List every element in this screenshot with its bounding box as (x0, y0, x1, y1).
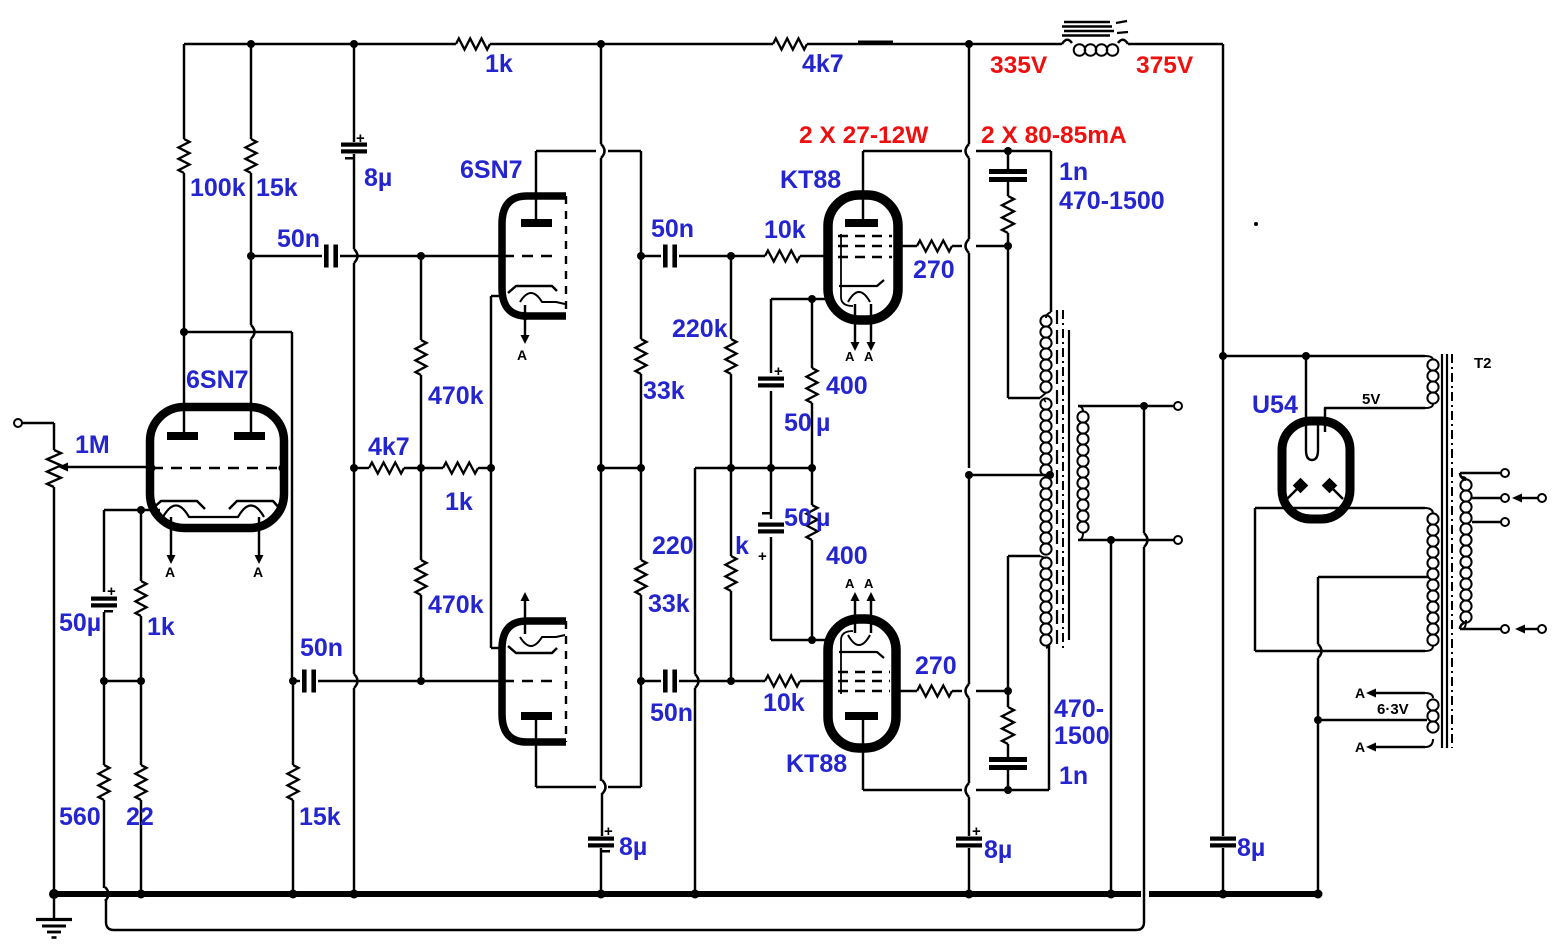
wire mains tap2 (1472, 497, 1501, 499)
wire top B+ rail left section (184, 43, 456, 45)
resistor 270 lower (917, 686, 952, 697)
wire 50u upper branch (770, 299, 772, 373)
svg-text:50: 50 (784, 409, 812, 437)
svg-text:50µ: 50µ (59, 609, 101, 637)
wire V3 top cap to y151 (863, 150, 962, 152)
ground bus (52, 891, 1141, 897)
capacitor 50n (splitter to KT88 upper) (663, 245, 668, 268)
wire 33k upper to rail link (640, 374, 642, 468)
wire HT left return (1254, 508, 1256, 651)
svg-text:10k: 10k (764, 216, 806, 244)
wire 15k plate lead (250, 44, 252, 139)
node junction V1a plate to V1b grid link (180, 328, 188, 336)
wire splitter upper cathode to bias (490, 296, 492, 468)
svg-text:270: 270 (915, 652, 957, 680)
svg-text:400: 400 (826, 542, 868, 570)
node junction 220k mid y468 (727, 464, 735, 472)
resistor 1k (bias) (443, 463, 478, 474)
node junction 470k mid (417, 464, 425, 472)
terminal mains tap2 right (1538, 494, 1546, 502)
V4 grid dashes row3 (838, 690, 890, 692)
wire V2a plate to 33k top (536, 150, 596, 152)
svg-text:470k: 470k (428, 382, 484, 410)
node junction 1k bias x141 y510 (137, 506, 145, 514)
wire OPT secondary top lead (1078, 405, 1174, 407)
terminal OPT secondary top (1174, 402, 1182, 410)
node junction 50u upper bottom (767, 464, 775, 472)
node junction 400 upper bottom (808, 464, 816, 472)
V4 heater (848, 635, 870, 645)
svg-text:A: A (1355, 685, 1365, 701)
wire hop x969 over y151 (968, 44, 970, 144)
svg-text:6SN7: 6SN7 (460, 156, 523, 184)
capacitor 8u (top filter) (341, 143, 367, 147)
node bus x1318 (1314, 890, 1323, 899)
svg-text:5V: 5V (1362, 391, 1380, 408)
wire to splitter upper grid (421, 255, 501, 257)
wire top rail choke to 375V corner (1128, 43, 1223, 45)
wire bias rail right (478, 467, 491, 469)
V2b cathode (508, 646, 557, 653)
capacitor 8u (335V filter) (956, 837, 982, 841)
OPT primary winding section 3 (1040, 477, 1051, 488)
node bus x293 (289, 890, 298, 899)
wire V4 cathode tap y640 (771, 639, 828, 641)
wire 15k-b to bus (292, 800, 294, 894)
wire y151 to snubber node (976, 150, 1008, 152)
wire mains bottom lead (1460, 622, 1466, 629)
scan artifact dash on top rail (858, 41, 893, 44)
svg-text:U54: U54 (1252, 391, 1298, 419)
stray scan dot (1254, 222, 1258, 226)
svg-text:+: + (972, 823, 981, 840)
node V2b heater lead envelope crossing (522, 618, 529, 625)
svg-text:1k: 1k (485, 50, 513, 78)
wire splitter lower cathode from bias (490, 468, 492, 648)
wire 470k upper leads (420, 256, 422, 340)
svg-text:15k: 15k (256, 174, 298, 202)
wire OPT primary bottom lead (1048, 644, 1050, 790)
terminal mains tap2 left (1501, 494, 1509, 502)
wire 10k to KT88 lower grid (800, 680, 829, 682)
node junction top rail x601 (597, 40, 605, 48)
wire 8u decoupling drop x354 (353, 44, 355, 142)
svg-text:+: + (758, 548, 767, 565)
resistor 470k lower (416, 560, 427, 595)
resistor 400 upper (807, 368, 818, 403)
node junction x104 y681 (100, 677, 108, 685)
node junction OPT centre tap right (1046, 471, 1054, 479)
wire 5V bottom lead (1325, 408, 1425, 432)
wire y151 to OPT top (1008, 150, 1051, 152)
V1 heater lead right with arrow (258, 517, 260, 555)
svg-text:1500: 1500 (1054, 722, 1110, 750)
node junction 470k lower bottom (417, 677, 425, 685)
wire mains bottom arrow link (1515, 625, 1525, 634)
capacitor 50u lower (758, 523, 784, 527)
V4 grid dashes row1 (838, 671, 890, 673)
wire mains top lead (1460, 473, 1466, 480)
svg-text:10k: 10k (763, 689, 805, 717)
tube V2b splitter lower envelope (502, 621, 566, 742)
wire x354 below 8u to bias rail and ground bus (353, 154, 355, 249)
pot wiper arrow 1M (58, 463, 68, 472)
resistor 15k (V1b grid leak) (288, 765, 299, 800)
svg-text:560: 560 (59, 803, 101, 831)
wire link y468 (601, 467, 641, 469)
wire 10k to KT88 upper grid (800, 255, 829, 257)
svg-text:6SN7: 6SN7 (186, 366, 249, 394)
terminal mains bottom right (1538, 625, 1546, 633)
V2a grid dashed line (503, 255, 560, 258)
wire screen to 270 upper (898, 245, 917, 247)
wire HT centre tap (1318, 576, 1429, 578)
svg-text:470-: 470- (1054, 695, 1104, 723)
svg-text:T2: T2 (1474, 355, 1492, 372)
resistor 10k upper grid stopper (765, 251, 800, 262)
node junction 4k7 left x354 y468 (350, 464, 358, 472)
wire KT88 cathode rail y468 (695, 467, 812, 469)
resistor 270 upper (917, 241, 952, 252)
wire hop x969 over y790 (966, 783, 970, 797)
choke L1 core (1064, 21, 1110, 23)
resistor 470-1500 upper (1002, 196, 1014, 233)
node V2b plate lead envelope crossing (533, 739, 540, 746)
OPT primary tap to centre (1046, 475, 1050, 478)
capacitor 1n upper snubber (989, 169, 1027, 174)
V3 heater (848, 292, 870, 302)
wire 560 to feedback line crossing bus (103, 800, 105, 888)
resistor 470k upper (416, 340, 427, 375)
V1 heater lead left with arrow (170, 517, 172, 555)
svg-text:KT88: KT88 (786, 750, 847, 778)
node bus x354 (350, 890, 359, 899)
svg-text:A: A (845, 576, 855, 591)
node junction top rail x354 (350, 40, 358, 48)
V1 left plate (167, 432, 198, 440)
svg-text:4k7: 4k7 (368, 433, 410, 461)
wire V4 plate run y790 (863, 789, 962, 791)
node bus x601 (597, 890, 606, 899)
wire OPT secondary bottom lead (1078, 539, 1174, 541)
svg-text:100k: 100k (190, 174, 246, 202)
wire link down right side x292 (291, 332, 293, 681)
wire 375V drop x1223 (1222, 44, 1224, 836)
T2 core (1441, 354, 1443, 748)
wire bias rail y468 (354, 467, 369, 469)
V3 top cap lead (862, 151, 864, 219)
wire 8u 335V to bus (968, 848, 970, 894)
svg-text:2 X 80-85mA: 2 X 80-85mA (981, 122, 1127, 149)
wire OPT primary top lead (1050, 151, 1052, 312)
svg-text:A: A (864, 349, 874, 364)
wire U54 cathode to 5V top lead (1223, 355, 1425, 357)
node junction feedback tap (1140, 402, 1148, 410)
node junction 50n2 tap upper (637, 252, 645, 260)
svg-text:2 X 27-12W: 2 X 27-12W (799, 122, 929, 149)
T2 5V winding (1425, 356, 1433, 360)
node junction x641 y468 (637, 464, 645, 472)
V3 beam plate line (841, 234, 853, 306)
capacitor 50u upper (758, 377, 784, 381)
svg-text:50n: 50n (277, 225, 320, 253)
svg-text:50n: 50n (300, 634, 343, 662)
svg-text:375V: 375V (1136, 52, 1194, 79)
node bus x1223 (1219, 890, 1228, 899)
node bus x141 (137, 890, 146, 899)
wire bias rail mid (404, 467, 443, 469)
wire V2a plate node down x641 (640, 151, 642, 339)
ground symbol (53, 894, 55, 919)
wire 33k lower leads (640, 468, 642, 560)
node junction 220k top (727, 252, 735, 260)
svg-text:+: + (604, 823, 613, 840)
V3 grid dashes row1 (838, 235, 892, 237)
V2b grid dashed line (503, 680, 560, 683)
svg-text:+: + (774, 363, 783, 380)
svg-text:+: + (107, 583, 116, 600)
wire input to volume pot (22, 422, 54, 424)
capacitor 8u (375V filter) (1210, 837, 1236, 841)
V2b heater lead with arrow (524, 600, 526, 634)
resistor 10k lower grid stopper (765, 676, 800, 687)
wire snubber node to OPT tap2 (1007, 556, 1009, 691)
wire 1k leads (140, 510, 142, 581)
resistor 15k (246, 139, 257, 173)
V4 cathode (839, 652, 884, 658)
terminal mains tap3 (1501, 518, 1509, 526)
wire 1M lower to ground bus (53, 487, 55, 894)
U54 anode right (1322, 478, 1338, 494)
V2a plate lead (535, 151, 537, 219)
wire 400 lower leads (811, 468, 813, 505)
V4 heater leads with arrows (854, 600, 856, 633)
node junction 220k bottom y681 (727, 677, 735, 685)
node junction top rail 335V x969 (965, 40, 973, 48)
wire HT bottom lead (1255, 650, 1425, 652)
svg-text:k: k (735, 532, 749, 560)
V1 right plate (234, 432, 265, 440)
node junction OPT centre tap (965, 471, 973, 479)
capacitor 50n (to splitter lower grid) (302, 670, 307, 693)
OPT primary winding section 2 (1040, 398, 1051, 409)
resistor 470-1500 lower (1002, 707, 1014, 744)
svg-text:8µ: 8µ (984, 836, 1012, 864)
wire 220k lower leads (730, 468, 732, 556)
wire 50n lower run (293, 680, 300, 682)
tube V1 6SN7 envelope (150, 407, 284, 528)
wire top rail to choke (807, 43, 1062, 45)
terminal mains bottom left (1501, 625, 1509, 633)
resistor 220k upper (726, 339, 737, 374)
resistor 33k upper (636, 339, 647, 374)
node junction snubber upper top (1004, 147, 1012, 155)
wire top rail middle (490, 43, 773, 45)
svg-text:470k: 470k (428, 591, 484, 619)
T2 mains primary winding (1462, 477, 1466, 480)
node junction x601 y468 (597, 464, 605, 472)
V4 beam plate line (841, 631, 853, 694)
resistor 220k lower (726, 556, 737, 591)
V2a heater (520, 293, 565, 304)
wire snubber upper cap leads (1007, 151, 1009, 169)
svg-text:270: 270 (913, 256, 955, 284)
V2a plate (521, 219, 552, 227)
wire secondary ground drop x1111 (1110, 540, 1112, 894)
resistor 1k (V1 cathode) (136, 581, 147, 616)
wire feedback drop x1144 (1143, 406, 1145, 533)
capacitor 50n (V1 to splitter upper) (324, 245, 329, 268)
svg-text:8µ: 8µ (364, 164, 392, 192)
node junction 400 lower bottom (808, 636, 816, 644)
node V2a plate lead envelope crossing (533, 193, 540, 200)
node bus x54 (49, 889, 59, 899)
node junction V1b plate tap y256 (247, 252, 255, 260)
svg-text:33k: 33k (643, 377, 685, 405)
wire hop x969 over y246 (966, 239, 970, 253)
resistor 22 (136, 765, 147, 800)
node bus x695 (691, 890, 700, 899)
svg-text:+: + (356, 130, 365, 147)
node V3 screen exit (894, 242, 902, 250)
wire 400 upper leads (811, 299, 813, 368)
node junction splitter cathode x491 (487, 464, 495, 472)
resistor 560 (99, 765, 110, 800)
node V2b grid entry (498, 677, 505, 684)
wire 270 upper to snubber bottom (952, 245, 962, 247)
V4 grid dashes row2 (838, 680, 890, 682)
svg-text:µ: µ (816, 409, 830, 437)
wire hop x601 over plate wire (600, 44, 602, 144)
svg-text:A: A (165, 564, 175, 580)
wire snubber lower leads (1007, 691, 1009, 707)
node bus x969 (965, 890, 974, 899)
svg-text:335V: 335V (990, 52, 1048, 79)
wire 8u mid to bus (600, 848, 602, 894)
V2b envelope dashed right edge (565, 621, 567, 742)
svg-text:33k: 33k (648, 590, 690, 618)
V1 right cathode (229, 501, 281, 510)
T2 6.3V winding (1425, 693, 1433, 698)
wire wiper to V1 grid (67, 466, 150, 468)
svg-text:50n: 50n (650, 699, 693, 727)
node junction snubber lower bottom (1004, 786, 1012, 794)
V2b heater (520, 635, 565, 646)
resistor 4k7 (top rail) (773, 39, 807, 50)
svg-text:µ: µ (816, 504, 830, 532)
OPT core (1056, 310, 1058, 648)
svg-text:220: 220 (652, 532, 694, 560)
V1 grid dashed line (152, 467, 282, 470)
T2 HT winding (1425, 508, 1433, 514)
node V2a heater lead envelope crossing (522, 314, 529, 321)
node junction x141 y681 (137, 677, 145, 685)
U54 anode left (1293, 478, 1309, 494)
svg-text:A: A (845, 349, 855, 364)
V2a heater lead (524, 305, 526, 336)
svg-text:1k: 1k (445, 488, 473, 516)
svg-text:8µ: 8µ (619, 833, 647, 861)
V2b plate (521, 712, 552, 720)
svg-text:22: 22 (126, 803, 154, 831)
svg-text:A: A (253, 564, 263, 580)
svg-text:400: 400 (826, 372, 868, 400)
OPT secondary winding (1078, 406, 1083, 412)
V1 heater filament (163, 506, 264, 518)
capacitor 8u (mid filter) (588, 837, 614, 841)
svg-text:1k: 1k (147, 613, 175, 641)
wire 6.3V bottom lead with arrow (1366, 743, 1376, 752)
wire 50u branch x104 (103, 510, 105, 592)
choke L1 winding (1062, 40, 1072, 44)
wire 6.3V centre tap link (1318, 719, 1427, 721)
wire 6.3V top lead with arrow (1366, 689, 1376, 698)
wire 470k lower leads (420, 468, 422, 560)
svg-text:50: 50 (784, 504, 812, 532)
wire 22 leads (140, 681, 142, 765)
resistor 4k7 (bias) (369, 463, 404, 474)
wire link y681 input stage (104, 680, 141, 682)
resistor 100k (179, 139, 190, 173)
svg-text:220k: 220k (672, 315, 728, 343)
OPT primary winding section 1 (1046, 312, 1051, 318)
resistor 400 lower (807, 505, 818, 540)
node junction 50n3 tap lower (637, 677, 645, 685)
tube U54 rectifier envelope (1282, 421, 1350, 519)
capacitor 50u (V1 cathode) (91, 597, 117, 601)
V2a cathode (508, 286, 557, 293)
terminal OPT secondary bottom (1174, 536, 1182, 544)
node V2a grid entry (498, 252, 505, 259)
wire 50n upper run (251, 255, 322, 257)
V2b plate lead down (535, 720, 537, 787)
wire mains tap2 arrow link (1512, 494, 1522, 503)
tube V4 KT88 lower envelope (828, 619, 896, 748)
wire plate-grid link y332 (184, 331, 292, 333)
wire ground drop x695 (694, 468, 696, 674)
node junction U54 output (1219, 352, 1227, 360)
capacitor 50n (splitter to KT88 lower) (663, 670, 668, 693)
potentiometer 1M (47, 450, 61, 487)
node junction top rail x251 (247, 40, 255, 48)
wire to splitter lower grid (421, 680, 501, 682)
wire V2b plate run y787 (536, 786, 596, 788)
V1 left cathode (151, 501, 205, 510)
wire V1 cathode bias y510 (104, 509, 160, 511)
V3 plate (845, 219, 878, 227)
capacitor 1n lower snubber (989, 757, 1027, 762)
wire filament left leg drop (1305, 356, 1307, 424)
svg-text:8µ: 8µ (1237, 834, 1265, 862)
svg-text:A: A (1355, 739, 1365, 755)
node junction x293 y681 (289, 677, 297, 685)
node junction snubber upper bottom (1004, 242, 1012, 250)
svg-text:1n: 1n (1059, 762, 1088, 790)
V4 plate lead down (862, 720, 864, 790)
svg-text:4k7: 4k7 (802, 50, 844, 78)
svg-text:1n: 1n (1059, 158, 1088, 186)
V2a envelope dashed right edge (565, 196, 567, 316)
V3 grid dashes row2 (838, 245, 892, 247)
svg-text:50n: 50n (651, 215, 694, 243)
wire 50n to 470k node (340, 255, 421, 257)
V3 cathode (839, 280, 884, 286)
V4 plate (845, 712, 878, 720)
wire 220k upper leads (730, 256, 732, 339)
node junction 400 upper top (808, 295, 816, 303)
svg-text:A: A (864, 576, 874, 591)
V3 heater leads with arrows (854, 304, 856, 342)
